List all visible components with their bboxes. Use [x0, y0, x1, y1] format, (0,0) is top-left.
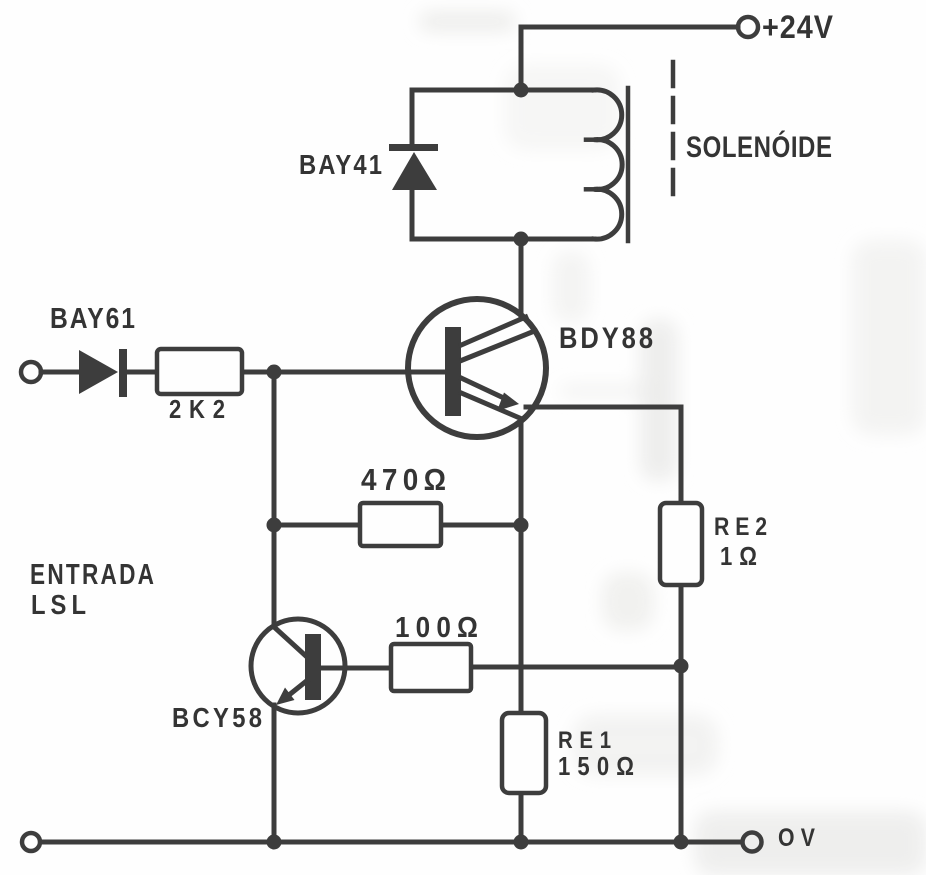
svg-text:+24V: +24V [762, 10, 834, 46]
svg-text:BAY41: BAY41 [299, 148, 382, 180]
svg-text:BAY61: BAY61 [50, 302, 135, 334]
svg-text:2K2: 2K2 [169, 395, 225, 424]
svg-text:BCY58: BCY58 [172, 701, 262, 733]
svg-text:SOLENÓIDE: SOLENÓIDE [686, 129, 832, 163]
svg-text:RE2: RE2 [714, 512, 767, 540]
svg-text:RE1: RE1 [558, 726, 611, 753]
svg-text:470Ω: 470Ω [361, 463, 446, 498]
svg-text:ENTRADA: ENTRADA [30, 557, 154, 590]
svg-text:1Ω: 1Ω [720, 542, 757, 571]
svg-text:100Ω: 100Ω [395, 611, 478, 644]
svg-text:BDY88: BDY88 [559, 321, 653, 354]
svg-text:LSL: LSL [31, 588, 86, 620]
